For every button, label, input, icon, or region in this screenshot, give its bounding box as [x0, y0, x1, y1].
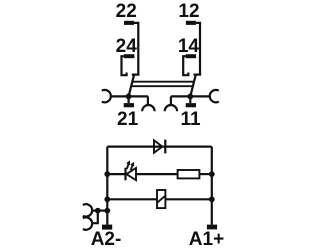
node on right rail (resistor row): [209, 171, 215, 177]
svg-text:A2-: A2-: [91, 229, 122, 250]
node 11 junction dot: [187, 94, 193, 100]
wire 22 to NC fixed contact: [134, 23, 138, 75]
LED cathode bar: [124, 168, 126, 181]
wire hook 14 NO fixed contact (pole 2): [183, 56, 188, 75]
mechanical link wire (lower): [131, 85, 193, 87]
node on right rail (coil row): [209, 196, 215, 202]
svg-text:24: 24: [116, 36, 138, 57]
svg-text:11: 11: [180, 109, 201, 130]
node 21 junction dot: [126, 94, 132, 100]
mechanical link wire (upper): [132, 81, 194, 83]
terminal A2: [102, 225, 112, 230]
LED arrow 1: [127, 164, 128, 169]
NC fixed contact tick (pole 1): [132, 73, 140, 75]
top wire of coil circuit: [107, 146, 212, 148]
terminal 14: [186, 54, 196, 58]
terminal 12: [186, 21, 196, 25]
wire A2 node to socket: [92, 210, 107, 212]
node on left rail (coil row): [104, 196, 110, 202]
coil socket arch (pole 1): [142, 105, 154, 111]
diode V1 triangle: [154, 140, 162, 152]
junction dot on socket wire: [95, 208, 101, 214]
svg-text:12: 12: [178, 1, 199, 22]
wire to lower socket: [92, 211, 98, 224]
terminal 21: [124, 103, 134, 107]
coil socket arch stub (pole 1): [147, 96, 149, 104]
wire socket to node 21: [111, 95, 148, 97]
terminal A1: [207, 225, 217, 230]
socket contact arc (A2 lower): [83, 217, 92, 229]
NC fixed contact tick (pole 2): [194, 73, 202, 75]
node A2 branch junction dot: [104, 208, 110, 214]
right rail wire (A1 side): [211, 147, 213, 225]
wire arch to node 11: [171, 95, 190, 97]
socket contact arc (right of 11): [210, 90, 219, 102]
relay coil diagonal: [158, 196, 165, 202]
svg-text:22: 22: [116, 1, 137, 22]
wire 12 to NC fixed contact: [196, 23, 200, 75]
diode V1 cathode bar: [164, 140, 166, 154]
wire node 21 to terminal: [128, 96, 130, 103]
wire node 11 to socket: [190, 95, 210, 97]
svg-text:14: 14: [178, 36, 200, 57]
contact mover (pole 2): [190, 74, 196, 97]
wire resistor to right rail: [199, 173, 211, 175]
LED row wire: [107, 173, 177, 175]
LED triangle: [126, 168, 136, 180]
left rail wire (A2 side): [106, 147, 108, 225]
contact mover (pole 1): [129, 74, 135, 97]
terminal 11: [186, 103, 196, 107]
wire hook 24 NO fixed contact (pole 1): [122, 56, 127, 75]
LED arrow 2: [131, 166, 133, 171]
socket contact arc (left of 21): [102, 90, 111, 102]
svg-text:21: 21: [117, 109, 139, 130]
resistor R1: [178, 170, 200, 178]
terminal 22: [124, 21, 134, 25]
node on left rail (LED row): [104, 171, 110, 177]
relay coil K1: [157, 190, 165, 208]
coil socket arch (pole 2): [165, 105, 177, 111]
terminal 24: [124, 54, 134, 58]
svg-text:A1+: A1+: [189, 229, 224, 250]
coil socket arch stub (pole 2): [170, 96, 172, 104]
coil row wire: [107, 198, 212, 200]
socket contact arc (A2 upper): [83, 204, 92, 216]
wire node 11 to terminal: [189, 96, 191, 103]
